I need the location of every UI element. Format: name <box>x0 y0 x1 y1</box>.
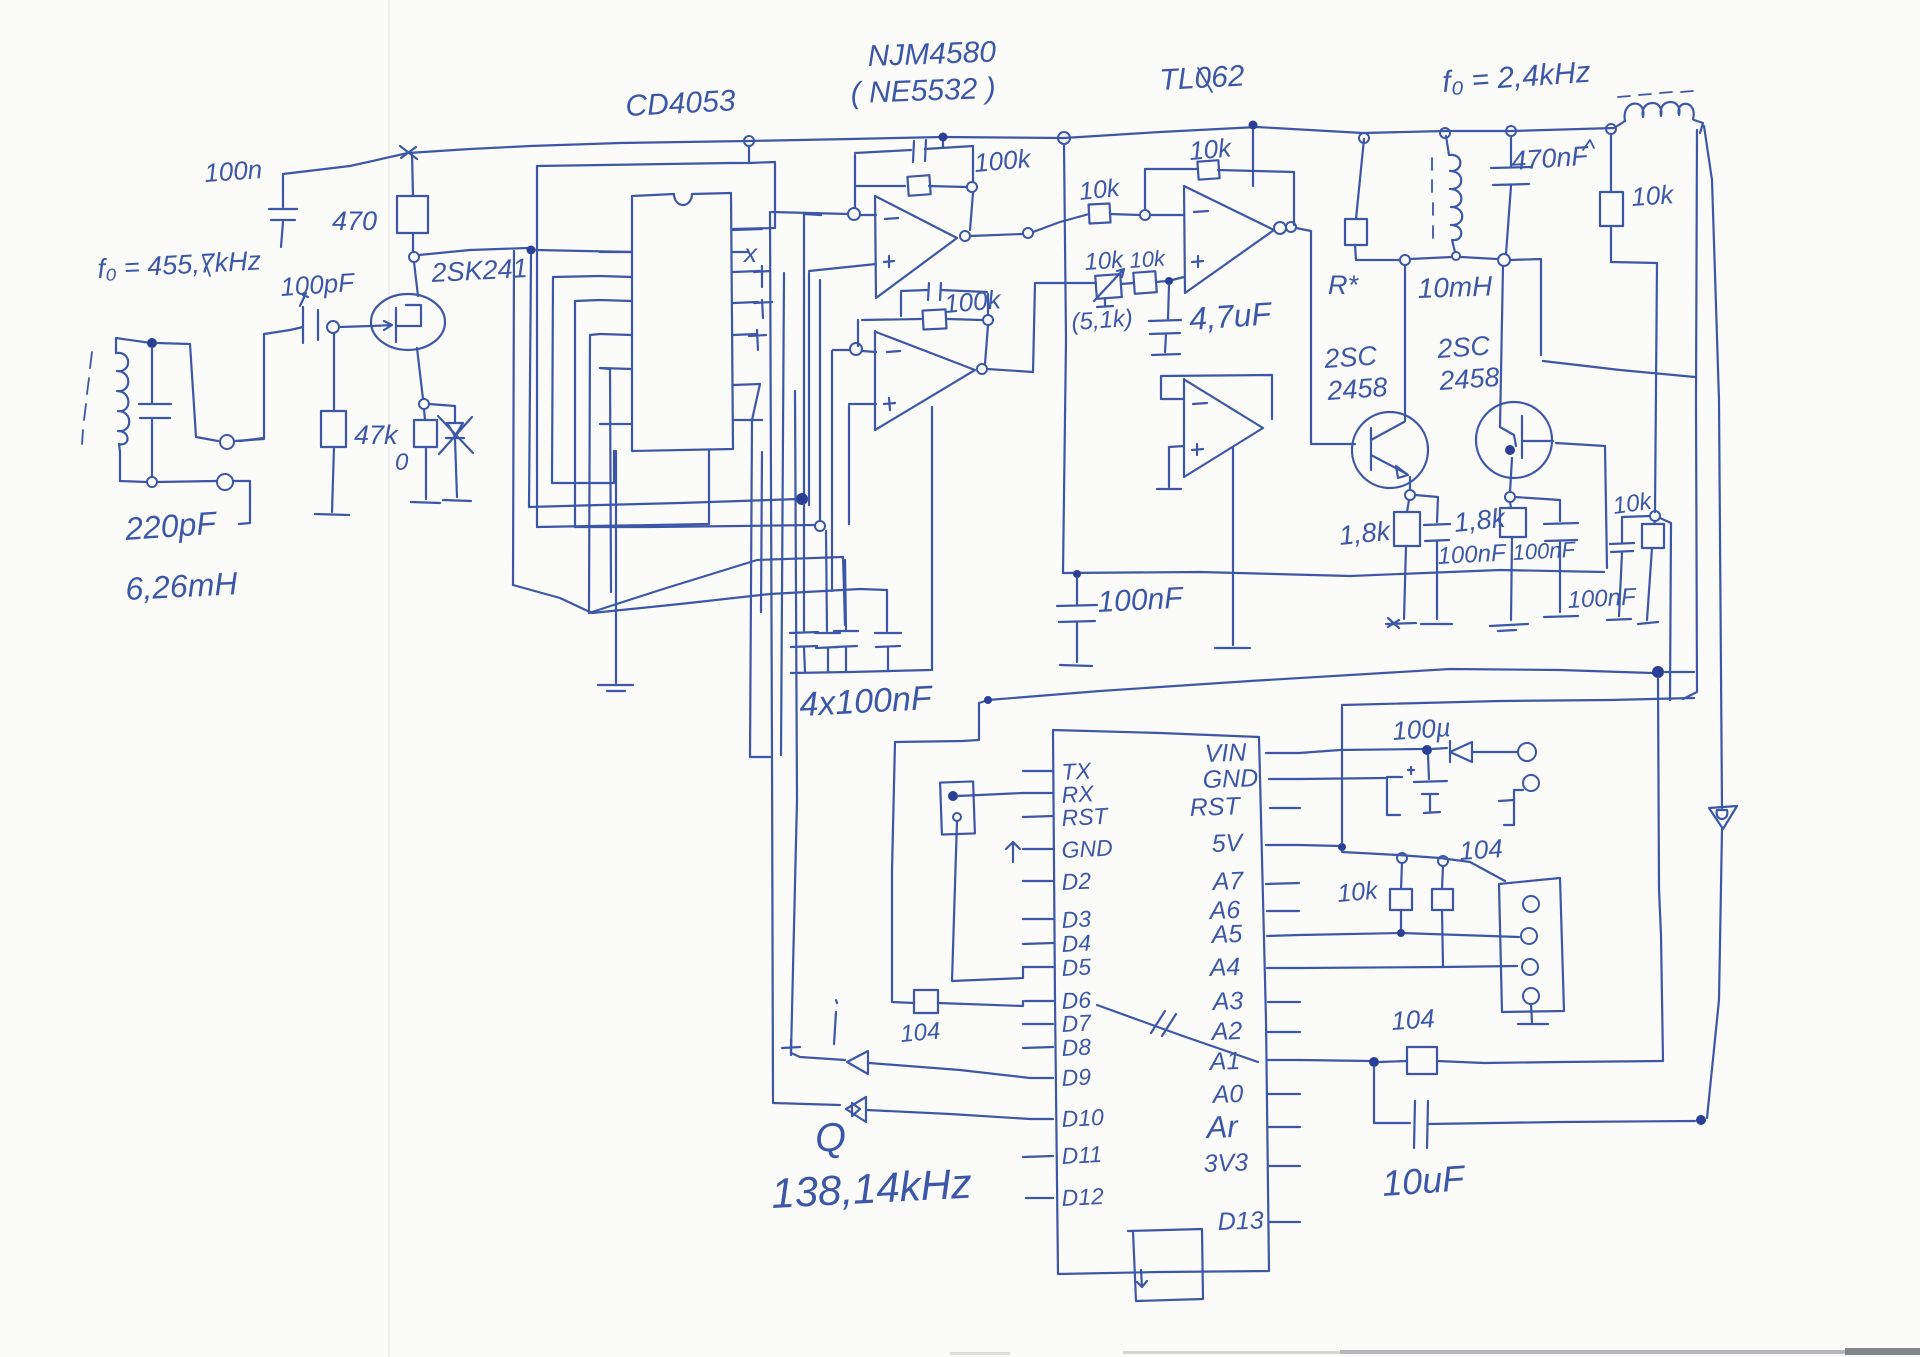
transistor Q2 2SC2458 left <box>1352 412 1428 488</box>
svg-text:x: x <box>742 238 758 268</box>
capacitor 100nF T1 <box>1415 495 1450 619</box>
coil dashed core <box>82 352 92 444</box>
svg-text:4x100nF: 4x100nF <box>798 679 934 724</box>
node after 100pF <box>327 321 339 333</box>
wire coil right corner hook <box>1694 120 1703 133</box>
capacitor 10uF on A1 <box>1374 1067 1695 1148</box>
svg-text:2458: 2458 <box>1325 372 1388 406</box>
trimmer arrow on 10k <box>1094 269 1124 301</box>
IC U2 CD4053 <box>632 193 733 451</box>
ground tick near b9 corner <box>782 1040 800 1055</box>
svg-text:470nF: 470nF <box>1510 141 1590 176</box>
svg-text:A0: A0 <box>1210 1080 1244 1109</box>
resistor 10k pullup A6 <box>1442 866 1443 889</box>
svg-text:TL062: TL062 <box>1159 60 1246 97</box>
node TL062 minus input <box>1140 210 1150 220</box>
wire wavy W1 to cap lead dot <box>529 499 799 507</box>
svg-text:CD4053: CD4053 <box>625 84 737 123</box>
wire collector T1 down <box>1404 265 1406 421</box>
terminal circle power + <box>1518 743 1536 761</box>
unused pin T-bars <box>749 266 772 350</box>
resistor 1,8k T1 <box>1404 500 1409 619</box>
wire T2 collector to right vertical <box>1543 361 1695 377</box>
capacitor 100nF below TL062 <box>1073 570 1081 578</box>
bracket GND wire left <box>1300 777 1402 815</box>
10mH dashed core <box>1432 158 1433 238</box>
wire VIN to power connector <box>1299 749 1422 753</box>
dashes above coil <box>1618 91 1693 97</box>
inductor 10mH <box>1446 136 1462 252</box>
diode D2 power <box>1450 741 1518 762</box>
bus slash marks <box>1151 1011 1176 1036</box>
resistor 104 at D6 <box>914 990 938 1013</box>
wire third vertical from pin row <box>552 276 614 483</box>
capacitor 470nF <box>1506 126 1516 136</box>
capacitor 100nF T2 <box>1515 497 1578 612</box>
right vertical A from coil <box>1683 130 1697 699</box>
USB connector rect <box>1128 1229 1203 1301</box>
wire 5V to pullups <box>1299 845 1340 846</box>
wire R* bottom to coil bottom node <box>1356 259 1400 261</box>
wire op1 minus to cap1 vertical <box>804 214 821 499</box>
wire wavy W3 <box>513 585 887 625</box>
op2 feedback loop <box>858 290 988 364</box>
op1 feedback loop <box>855 146 973 230</box>
antenna terminal lower <box>217 474 233 490</box>
op1 inverting input node <box>848 208 860 220</box>
capacitor C 100n top left <box>269 174 297 247</box>
wire IC bottom ground vertical <box>615 451 617 683</box>
svg-text:1,8k: 1,8k <box>1452 503 1507 538</box>
svg-text:4,7uF: 4,7uF <box>1188 295 1275 337</box>
svg-text:10k: 10k <box>1078 174 1123 206</box>
svg-text:100nF: 100nF <box>1437 539 1508 570</box>
node top rail to fb cap <box>942 137 944 147</box>
svg-text:R*: R* <box>1328 270 1359 300</box>
wire op2 minus vertical down <box>831 351 833 591</box>
transistor Q1 2SK241 <box>371 294 445 350</box>
GND pin arrow symbol <box>1006 842 1020 862</box>
node top rail TL062 <box>1058 132 1070 144</box>
capacitor 100u electrolytic <box>1408 755 1447 813</box>
svg-text:Q: Q <box>814 1115 848 1161</box>
ground 47k <box>315 514 349 515</box>
ground IC <box>598 685 633 691</box>
wire 10k down right chain <box>1611 262 1657 512</box>
resistor below Q1 <box>424 409 426 499</box>
op-amp U4a TL062 <box>1184 186 1274 293</box>
svg-text:A3: A3 <box>1210 987 1244 1016</box>
svg-text:10k: 10k <box>1129 246 1167 273</box>
wire vertical below IC right <box>761 452 762 612</box>
wire step down to MCU area <box>895 700 988 742</box>
wire op2 plus vertical down to caps rail <box>849 404 932 670</box>
svg-text:10mH: 10mH <box>1417 270 1494 304</box>
diagonal bus wire D6 to A1 <box>1097 1005 1258 1062</box>
op U4a output node <box>1274 222 1286 234</box>
svg-text:GND: GND <box>1061 834 1113 863</box>
resistor 10k top right <box>1606 124 1616 134</box>
wire sixth vertical <box>600 368 611 592</box>
wire outer loop left of ISP <box>892 742 914 1003</box>
node op2 fb right <box>983 315 993 325</box>
svg-text:3V3: 3V3 <box>1203 1148 1249 1178</box>
svg-text:10k: 10k <box>1084 246 1126 276</box>
svg-text:2SC: 2SC <box>1322 340 1378 374</box>
svg-text:1,8k: 1,8k <box>1337 516 1392 551</box>
wire fifth vertical <box>589 334 600 613</box>
node 10k right lower <box>1650 511 1660 521</box>
op2 output arrow <box>977 364 987 374</box>
svg-text:100µ: 100µ <box>1391 712 1451 746</box>
tank bottom node <box>147 477 157 487</box>
resistor 10k pullup A7 <box>1401 863 1402 889</box>
transistor Q3 2SC2458 right <box>1476 402 1552 478</box>
triangle marker on right vertical <box>1709 806 1737 829</box>
terminal circle power - <box>1523 775 1539 791</box>
svg-text:(5,1k): (5,1k) <box>1071 305 1134 336</box>
capacitor op1 feedback <box>913 140 926 162</box>
wire D10 left vertical with triangle <box>770 212 840 1105</box>
right vertical B long with triangle <box>1704 126 1722 1118</box>
MCU U5 rectangle <box>1053 730 1269 1274</box>
op-amp U3a NJM4580 <box>875 196 957 298</box>
capacitor 100pF <box>300 293 318 343</box>
emitter T1 node <box>1405 490 1415 500</box>
wire top supply rail <box>283 121 1625 174</box>
wire ISP to D5 <box>952 821 1023 981</box>
ground T1 with arrow <box>1386 618 1416 628</box>
svg-text:220pF: 220pF <box>123 505 219 547</box>
node op1 fb right <box>967 182 977 192</box>
svg-text:D12: D12 <box>1061 1183 1105 1211</box>
resistor R* <box>1355 139 1364 260</box>
svg-text:D9: D9 <box>1061 1063 1092 1091</box>
CD4053 right pin stubs <box>733 229 762 420</box>
antenna coil L1 6,26mH <box>116 353 129 481</box>
resistor 100k op2 <box>923 309 947 329</box>
wire TL062 left vertical <box>1063 144 1066 573</box>
wire pullup2 down to A4 row <box>1442 910 1443 966</box>
wire wavy W2 <box>575 525 814 527</box>
svg-text:47k: 47k <box>354 420 399 450</box>
svg-text:A4: A4 <box>1207 953 1241 982</box>
wire cap to antenna terminal <box>240 334 264 441</box>
capacitor op2 feedback <box>928 283 941 300</box>
scan edge shadow bottom <box>1123 1351 1343 1354</box>
capacitor 4,7uF <box>1149 285 1181 355</box>
svg-text:104: 104 <box>1458 833 1503 866</box>
svg-text:10k: 10k <box>1188 132 1234 166</box>
wire A5 row through pullup1 <box>1300 933 1519 937</box>
svg-text:0: 0 <box>395 449 409 476</box>
wire long vertical pair top joins <box>750 384 770 757</box>
wire node to CD4053 <box>419 248 528 255</box>
label i <box>834 1000 837 1044</box>
wire plus chain <box>1121 277 1184 284</box>
wire loop A around IC <box>537 163 731 527</box>
resistor 10k right lower <box>1647 521 1655 620</box>
svg-text:A5: A5 <box>1209 920 1243 949</box>
op-amp U4a TL062 feedback <box>1145 169 1294 225</box>
svg-text:100nF: 100nF <box>1567 583 1638 614</box>
svg-text:D2: D2 <box>1061 867 1092 895</box>
node X junction top rail <box>400 146 417 159</box>
node below 470 <box>409 252 419 262</box>
wire low feedback W_low <box>988 669 1652 700</box>
op-amp U3b NJM4580 <box>875 331 975 430</box>
svg-text:A7: A7 <box>1210 867 1245 896</box>
svg-text:D8: D8 <box>1061 1033 1092 1061</box>
wire second left vertical <box>529 255 531 507</box>
svg-text:100pF: 100pF <box>279 267 357 302</box>
wire A1 row <box>1300 1060 1370 1061</box>
svg-text:100k: 100k <box>943 284 1004 319</box>
capacitor bank 4x100nF <box>790 504 818 672</box>
emitter T2 node <box>1505 492 1515 502</box>
svg-text:Ar: Ar <box>1204 1109 1240 1145</box>
op U4b feedback loop <box>1161 375 1272 419</box>
antenna terminal upper <box>220 435 234 449</box>
resistor 47k <box>332 333 334 512</box>
wire L2 lower parallel <box>1342 698 1694 705</box>
ISP connector box <box>940 781 975 834</box>
svg-text:NJM4580: NJM4580 <box>867 36 997 73</box>
resistor 1,8k T2 <box>1510 502 1512 620</box>
svg-text:6,26mH: 6,26mH <box>124 565 239 607</box>
resistor 10k TL062 input <box>1089 214 1140 215</box>
tank top node <box>147 338 157 348</box>
svg-text:100n: 100n <box>203 154 263 188</box>
svg-text:D10: D10 <box>1061 1104 1105 1132</box>
wire collector T2 down <box>1500 266 1516 446</box>
wire supply to op from rail <box>1252 126 1254 186</box>
svg-text:GND: GND <box>1202 764 1259 794</box>
inductor horizontal top right <box>1625 102 1694 121</box>
svg-text:D11: D11 <box>1061 1141 1103 1169</box>
resistor 100k op1 <box>907 175 930 195</box>
svg-text:D5: D5 <box>1061 953 1092 981</box>
svg-text:RST: RST <box>1189 792 1242 822</box>
ground 10k right <box>1638 622 1658 624</box>
wire left vertical to lower rows <box>513 251 514 585</box>
svg-text:( NE5532 ): ( NE5532 ) <box>850 72 996 110</box>
wire op2 output right then up to TL062 plus chain <box>987 283 1096 372</box>
svg-text:VIN: VIN <box>1204 739 1248 768</box>
wire D9 left vertical with triangle <box>791 391 845 1060</box>
svg-text:2458: 2458 <box>1437 362 1500 396</box>
MCU right pin stubs <box>1266 753 1300 1222</box>
svg-text:104: 104 <box>899 1018 941 1048</box>
svg-text:10uF: 10uF <box>1381 1157 1468 1204</box>
caps bottom rail <box>791 670 930 673</box>
MCU left pin labels <box>1061 757 1113 1211</box>
wire vertical mid nest <box>781 273 784 755</box>
wire output down to transistor base <box>1296 228 1355 444</box>
op1 output node <box>960 231 970 241</box>
CD4053 left pin stubs <box>600 252 632 424</box>
svg-text:100nF: 100nF <box>1512 537 1577 565</box>
resistor 10k TL062 feedback <box>1197 160 1219 179</box>
ground T2 <box>1490 624 1528 631</box>
resistor 470 <box>412 153 413 251</box>
audio connector right <box>1499 878 1564 1012</box>
resistor 104 on A1 feedback <box>1407 1047 1437 1074</box>
op-amp U4b TL062 <box>1184 379 1263 477</box>
svg-text:2SC: 2SC <box>1435 330 1491 364</box>
wire right loop down from dot <box>1658 678 1663 1061</box>
wire T2 base loop to mid rail <box>1556 443 1607 568</box>
capacitor 220pF <box>139 348 171 477</box>
svg-text:A2: A2 <box>1209 1017 1243 1046</box>
wire op U4b plus vertical ground lower <box>1215 448 1250 648</box>
svg-text:10k: 10k <box>1336 876 1380 908</box>
capacitor 100nF right <box>1610 516 1650 616</box>
svg-text:470: 470 <box>332 206 377 236</box>
op2 inverting input node <box>850 343 862 355</box>
svg-text:10k: 10k <box>1630 179 1676 212</box>
MCU left pin stubs <box>1023 771 1053 1198</box>
mid rail horizontal <box>1063 570 1604 576</box>
op U4b plus lead down to ground <box>1157 446 1184 489</box>
svg-text:104: 104 <box>1390 1003 1435 1036</box>
paper fold line <box>388 0 390 1357</box>
svg-text:100nF: 100nF <box>1097 581 1185 618</box>
MCU right pin labels <box>1189 739 1264 1236</box>
wire ISP to RX <box>958 793 1023 796</box>
wire wavy W4 <box>589 557 845 625</box>
svg-text:5V: 5V <box>1211 829 1245 858</box>
svg-text:RST: RST <box>1061 803 1110 831</box>
node source Q1 <box>419 399 429 409</box>
connector ground <box>1518 1004 1548 1024</box>
wire box right of IC top <box>744 136 754 146</box>
wire fourth vertical <box>575 300 600 527</box>
varicap D1 crossed out <box>429 404 464 497</box>
svg-text:100k: 100k <box>973 143 1034 178</box>
svg-text:D13: D13 <box>1217 1206 1264 1236</box>
